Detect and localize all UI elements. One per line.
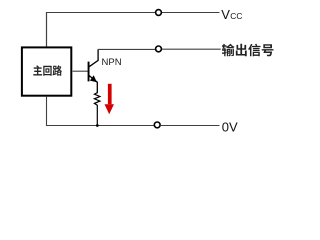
svg-text:0V: 0V [222,120,238,135]
label 主回路 [33,65,62,75]
terminal 0V [154,122,160,128]
svg-text:NPN: NPN [102,57,122,68]
junction resistor/0V rail [96,124,99,127]
svg-text:V: V [221,7,230,22]
wire box top to Vcc rail [46,12,48,46]
wire base [73,70,88,72]
svg-text:CC: CC [230,11,242,21]
transistor Q1 base bar [88,62,90,82]
transistor Q1 collector [89,50,98,67]
terminal Vcc [156,10,162,16]
red current arrow [105,84,115,115]
terminal output signal [156,46,162,52]
wire output signal rail [98,48,221,50]
transistor Q1 emitter [89,76,97,94]
wire Vcc rail top [46,12,220,14]
label 输出信号 [222,44,274,57]
wire 0V rail [47,97,220,126]
resistor R1 [94,93,100,126]
transistor Q1 emitter arrowhead [90,75,97,82]
main circuit box [22,47,71,95]
